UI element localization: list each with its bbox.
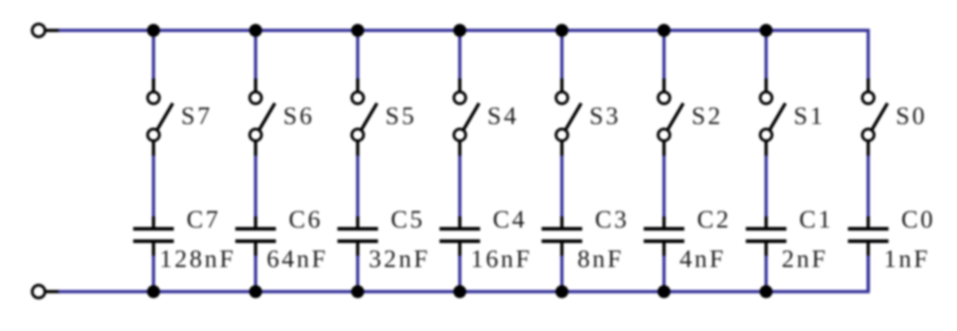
wire (top rail to switch S3) [560,30,563,79]
wire (capacitor C3 to bottom rail) [560,256,563,292]
wire (top rail to switch S5) [356,30,359,79]
wire (capacitor C5 to bottom rail) [356,256,359,292]
wire (top rail) [59,30,869,79]
junction (bottom rail / C6 branch) [249,285,262,298]
junction (top rail / S3 branch) [555,24,568,37]
junction (bottom rail / C7 branch) [147,285,160,298]
wire (switch S2 to capacitor C2) [662,156,665,218]
terminal (top-left input) [32,24,60,37]
wire (switch S7 to capacitor C7) [152,156,155,218]
wire (top rail to switch S2) [662,30,665,79]
svg-text:C4: C4 [493,207,527,234]
junction (bottom rail / C4 branch) [453,285,466,298]
switch S7 [148,79,173,157]
capacitor C2 [644,217,685,257]
wire (capacitor C2 to bottom rail) [662,256,665,292]
capacitor C6 [235,217,276,257]
svg-text:S3: S3 [589,103,620,130]
terminal (bottom-left input) [32,285,60,298]
wire (switch S5 to capacitor C5) [356,156,359,218]
junction (bottom rail / C2 branch) [658,285,671,298]
switch S5 [352,79,377,157]
junction (top rail / S2 branch) [658,24,671,37]
switch S6 [250,79,275,157]
switch S2 [658,79,683,157]
wire (switch S0 to capacitor C0) [867,156,870,218]
svg-text:C2: C2 [697,207,731,234]
wire (top rail to switch S1) [764,30,767,79]
svg-text:8nF: 8nF [577,246,623,273]
capacitor C4 [440,217,481,257]
svg-text:S2: S2 [692,103,723,130]
svg-text:S7: S7 [181,103,212,130]
capacitor C0 [848,217,889,257]
wire (capacitor C6 to bottom rail) [254,256,257,292]
wire (switch S3 to capacitor C3) [560,156,563,218]
svg-text:S5: S5 [385,103,416,130]
junction (bottom rail / C1 branch) [760,285,773,298]
wire (top rail to switch S7) [152,30,155,79]
svg-text:C1: C1 [799,207,833,234]
wire (capacitor C4 to bottom rail) [458,256,461,292]
junction (top rail / S4 branch) [453,24,466,37]
switch S0 [862,79,887,157]
wire (top rail to switch S4) [458,30,461,79]
svg-text:S1: S1 [794,103,825,130]
junction (top rail / S1 branch) [760,24,773,37]
wire (switch S1 to capacitor C1) [764,156,767,218]
svg-text:128nF: 128nF [160,246,236,273]
wire (switch S6 to capacitor C6) [254,156,257,218]
wire (switch S4 to capacitor C4) [458,156,461,218]
junction (top rail / S6 branch) [249,24,262,37]
wire (bottom rail) [59,256,869,292]
junction (bottom rail / C5 branch) [351,285,364,298]
capacitor C3 [542,217,583,257]
svg-text:S6: S6 [283,103,314,130]
junction (bottom rail / C3 branch) [555,285,568,298]
svg-text:C6: C6 [289,207,323,234]
wire (capacitor C7 to bottom rail) [152,256,155,292]
capacitor C5 [337,217,378,257]
svg-text:4nF: 4nF [680,246,726,273]
svg-text:32nF: 32nF [369,246,430,273]
switch S3 [556,79,581,157]
wire (capacitor C1 to bottom rail) [764,256,767,292]
svg-text:C0: C0 [901,207,935,234]
svg-text:2nF: 2nF [782,246,828,273]
switch S1 [760,79,785,157]
svg-text:1nF: 1nF [884,246,930,273]
wire (capacitor C0 to bottom rail) [867,256,870,291]
capacitor C7 [133,217,174,257]
svg-text:C3: C3 [595,207,629,234]
svg-text:S4: S4 [487,103,518,130]
wire (top rail to switch S6) [254,30,257,79]
capacitor C1 [746,217,787,257]
svg-text:64nF: 64nF [267,246,328,273]
svg-text:C7: C7 [187,207,221,234]
svg-text:16nF: 16nF [471,246,532,273]
junction (top rail / S5 branch) [351,24,364,37]
junction (top rail / S7 branch) [147,24,160,37]
switch S4 [454,79,479,157]
svg-text:S0: S0 [896,103,927,130]
svg-text:C5: C5 [391,207,425,234]
